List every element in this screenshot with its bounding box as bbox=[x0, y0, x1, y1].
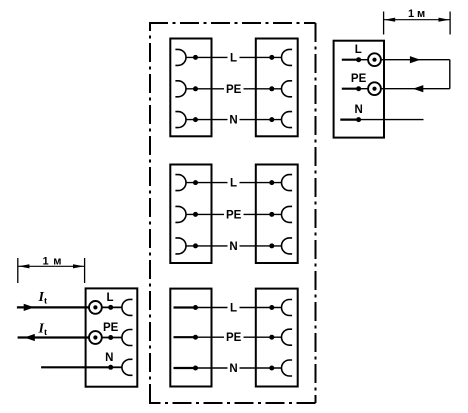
svg-text:N: N bbox=[229, 363, 237, 375]
wire L group 3 right segment bbox=[240, 307, 282, 309]
wire PE top-right stub bbox=[342, 88, 359, 90]
svg-text:PE: PE bbox=[226, 209, 242, 221]
current arrow right on lead L bbox=[24, 304, 35, 311]
junction dot L group 1 right bbox=[269, 55, 274, 60]
enclosure border right (dash-dot) bbox=[315, 23, 317, 403]
current arrow right on L loop bbox=[410, 56, 421, 63]
junction dot N group 1 right bbox=[269, 117, 274, 122]
junction dot L group 1 left bbox=[193, 55, 198, 60]
wire N to contact arc bbox=[111, 366, 122, 368]
dimension tick left (bottom-left 1 m) bbox=[17, 258, 19, 283]
dimension arrow right (top-right) bbox=[439, 18, 450, 22]
junction dot PE group 2 left bbox=[193, 212, 198, 217]
socket group 2 right block bbox=[256, 165, 298, 264]
dimension tick right (top-right 1 m) bbox=[449, 12, 451, 35]
junction dot N group 2 right bbox=[269, 243, 274, 248]
wire L group 2 right segment bbox=[240, 182, 282, 184]
junction dot PE top-right bbox=[356, 86, 361, 91]
socket contact arc L bottom-left bbox=[122, 299, 133, 315]
wire N group 3 left segment bbox=[196, 367, 228, 369]
socket contact arc PE group 2 left bbox=[175, 206, 186, 222]
svg-text:L: L bbox=[230, 52, 237, 64]
socket contact arc L group 1 right bbox=[282, 49, 293, 65]
svg-text:PE: PE bbox=[103, 322, 119, 334]
current arrow left on PE loop bbox=[413, 85, 424, 92]
bottom-left socket-under-test block bbox=[86, 288, 138, 386]
socket contact arc PE group 1 left bbox=[175, 81, 186, 97]
dimension line (top-right 1 m) bbox=[384, 19, 451, 21]
dimension arrow left (bottom-left) bbox=[18, 264, 29, 268]
socket contact arc N group 2 left bbox=[175, 238, 186, 254]
dimension tick left (top-right 1 m) bbox=[383, 12, 385, 35]
socket contact arc L group 1 left bbox=[175, 49, 186, 65]
socket contact arc PE group 1 right bbox=[282, 81, 293, 97]
wire PE group 3 left segment bbox=[196, 336, 224, 338]
socket group 1 right block bbox=[256, 39, 298, 137]
wire N lead bottom-left bbox=[41, 366, 111, 368]
svg-text:N: N bbox=[105, 352, 113, 364]
wire L top-right stub bbox=[342, 59, 359, 61]
junction dot L group 3 left bbox=[193, 305, 198, 310]
wire L to terminal circle bbox=[359, 59, 369, 61]
wire L inside block bbox=[102, 306, 122, 308]
wire PE inside block bbox=[102, 337, 122, 339]
svg-text:PE: PE bbox=[351, 73, 367, 85]
junction dot PE group 3 right bbox=[269, 335, 274, 340]
dimension arrow right (bottom-left) bbox=[73, 264, 84, 268]
socket contact arc N group 3 right bbox=[282, 360, 293, 376]
junction dot N group 1 left bbox=[193, 117, 198, 122]
svg-text:L: L bbox=[106, 292, 113, 304]
wire PE group 3 left stub bbox=[174, 336, 197, 338]
socket group 1 left block bbox=[170, 39, 211, 137]
wire N group 2 left segment bbox=[186, 245, 228, 247]
wire N group 3 right segment bbox=[240, 367, 282, 369]
wire N group 1 left segment bbox=[186, 119, 228, 121]
wire L loop out bbox=[381, 59, 450, 61]
wire N top-right stub bbox=[340, 118, 359, 120]
junction dot PE group 1 right bbox=[269, 86, 274, 91]
wire L group 3 left stub bbox=[174, 306, 197, 308]
socket contact arc PE bottom-left bbox=[122, 330, 133, 346]
svg-text:1: 1 bbox=[43, 255, 49, 267]
junction dot PE group 3 left bbox=[193, 335, 198, 340]
socket contact arc PE group 3 right bbox=[282, 329, 293, 345]
svg-text:м: м bbox=[417, 8, 425, 20]
junction dot L group 2 left bbox=[193, 180, 198, 185]
socket contact arc N group 1 right bbox=[282, 112, 293, 128]
junction dot L group 2 right bbox=[269, 180, 274, 185]
junction dot PE group 2 right bbox=[269, 212, 274, 217]
junction dot N top-right bbox=[356, 117, 361, 122]
junction dot PE bottom-left bbox=[108, 335, 113, 340]
wire PE group 2 right segment bbox=[244, 213, 282, 215]
terminal circle PE top-right bbox=[368, 82, 381, 95]
socket contact arc L group 3 right bbox=[282, 300, 293, 316]
dimension line (bottom-left 1 m) bbox=[18, 265, 85, 267]
junction dot N group 2 left bbox=[193, 243, 198, 248]
wire L group 3 left segment bbox=[196, 307, 228, 309]
socket group 3 left block bbox=[170, 289, 211, 387]
svg-text:It: It bbox=[38, 290, 48, 307]
svg-text:L: L bbox=[230, 303, 237, 315]
wire L group 1 left segment bbox=[186, 56, 228, 58]
junction dot N group 3 right bbox=[269, 366, 274, 371]
svg-text:N: N bbox=[229, 241, 237, 253]
junction dot L group 3 right bbox=[269, 305, 274, 310]
svg-text:1: 1 bbox=[408, 8, 414, 20]
wire loop vertical bbox=[449, 60, 451, 89]
wire PE group 2 left segment bbox=[186, 213, 224, 215]
wire PE group 1 left segment bbox=[186, 88, 224, 90]
socket contact arc PE group 2 right bbox=[282, 206, 293, 222]
svg-text:It: It bbox=[38, 321, 48, 338]
terminal circle L bottom-left bbox=[89, 301, 102, 314]
svg-text:м: м bbox=[53, 255, 61, 267]
socket contact arc N bottom-left bbox=[122, 359, 133, 375]
wire L group 2 left segment bbox=[186, 182, 228, 184]
top-right socket-under-test block bbox=[334, 41, 384, 138]
current arrow left on lead PE bbox=[24, 334, 35, 341]
enclosure border bottom (dash-dot) bbox=[149, 402, 316, 404]
wire N group 1 right segment bbox=[240, 119, 282, 121]
svg-text:N: N bbox=[229, 115, 237, 127]
wire PE to terminal circle bbox=[359, 88, 369, 90]
junction dot L top-right bbox=[356, 57, 361, 62]
socket contact arc L group 2 left bbox=[175, 175, 186, 191]
dimension tick right (bottom-left 1 m) bbox=[84, 258, 86, 283]
svg-text:L: L bbox=[355, 44, 362, 56]
junction dot N group 3 left bbox=[193, 366, 198, 371]
wire PE group 1 right segment bbox=[244, 88, 282, 90]
terminal circle PE bottom-left bbox=[89, 331, 102, 344]
enclosure border left (dash-dot) bbox=[149, 23, 151, 403]
wire N group 2 right segment bbox=[240, 245, 282, 247]
wire N group 3 left stub bbox=[174, 367, 197, 369]
svg-text:PE: PE bbox=[226, 332, 242, 344]
terminal circle L top-right bbox=[368, 53, 381, 66]
wire PE loop return bbox=[381, 88, 450, 90]
wire PE group 3 right segment bbox=[244, 336, 282, 338]
socket group 2 left block bbox=[170, 165, 211, 264]
svg-text:N: N bbox=[354, 104, 362, 116]
svg-text:PE: PE bbox=[226, 84, 242, 96]
dimension arrow left (top-right) bbox=[384, 18, 395, 22]
socket contact arc N group 2 right bbox=[282, 238, 293, 254]
socket contact arc N group 1 left bbox=[175, 112, 186, 128]
wire L group 1 right segment bbox=[240, 56, 282, 58]
junction dot L bottom-left bbox=[108, 305, 113, 310]
socket group 3 right block bbox=[256, 289, 298, 387]
wire N extension bbox=[359, 119, 424, 121]
enclosure border top (dash-dot) bbox=[149, 22, 316, 24]
svg-text:L: L bbox=[230, 178, 237, 190]
junction dot PE group 1 left bbox=[193, 86, 198, 91]
junction dot N bottom-left bbox=[108, 365, 113, 370]
test current lead L incoming bbox=[17, 306, 89, 308]
socket contact arc L group 2 right bbox=[282, 175, 293, 191]
test current lead PE outgoing bbox=[18, 336, 89, 338]
